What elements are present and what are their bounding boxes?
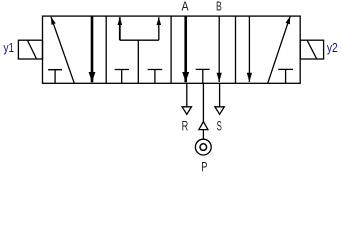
svg-text:R: R (182, 118, 189, 133)
svg-text:A: A (182, 0, 189, 14)
svg-text:S: S (217, 118, 222, 133)
svg-text:P: P (201, 159, 207, 174)
svg-text:y1: y1 (4, 41, 15, 55)
svg-text:y2: y2 (327, 41, 338, 55)
svg-text:B: B (216, 0, 222, 14)
